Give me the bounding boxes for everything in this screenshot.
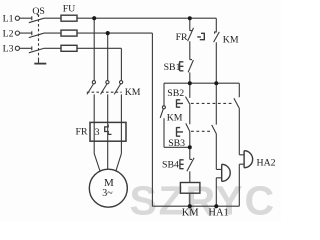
svg-text:SB2: SB2 <box>167 88 184 99</box>
svg-text:3: 3 <box>95 127 100 138</box>
svg-text:KM: KM <box>125 87 141 98</box>
svg-text:KM: KM <box>167 112 183 123</box>
svg-text:SB1: SB1 <box>164 62 181 73</box>
svg-text:HA2: HA2 <box>257 158 276 169</box>
svg-text:QS: QS <box>32 6 45 17</box>
svg-text:L3: L3 <box>3 44 14 55</box>
svg-text:L2: L2 <box>3 28 14 39</box>
svg-text:HA1: HA1 <box>208 207 228 218</box>
svg-text:FU: FU <box>63 3 76 14</box>
svg-text:L1: L1 <box>3 14 14 25</box>
svg-text:KM: KM <box>182 207 200 218</box>
svg-text:SB3: SB3 <box>168 138 185 149</box>
svg-text:FR: FR <box>76 127 88 138</box>
svg-text:M: M <box>104 177 114 189</box>
svg-text:3~: 3~ <box>102 188 113 199</box>
svg-text:SB4: SB4 <box>162 160 179 171</box>
svg-text:SZRYC: SZRYC <box>130 178 276 222</box>
svg-text:KM: KM <box>223 34 239 45</box>
svg-text:FR: FR <box>176 32 188 43</box>
